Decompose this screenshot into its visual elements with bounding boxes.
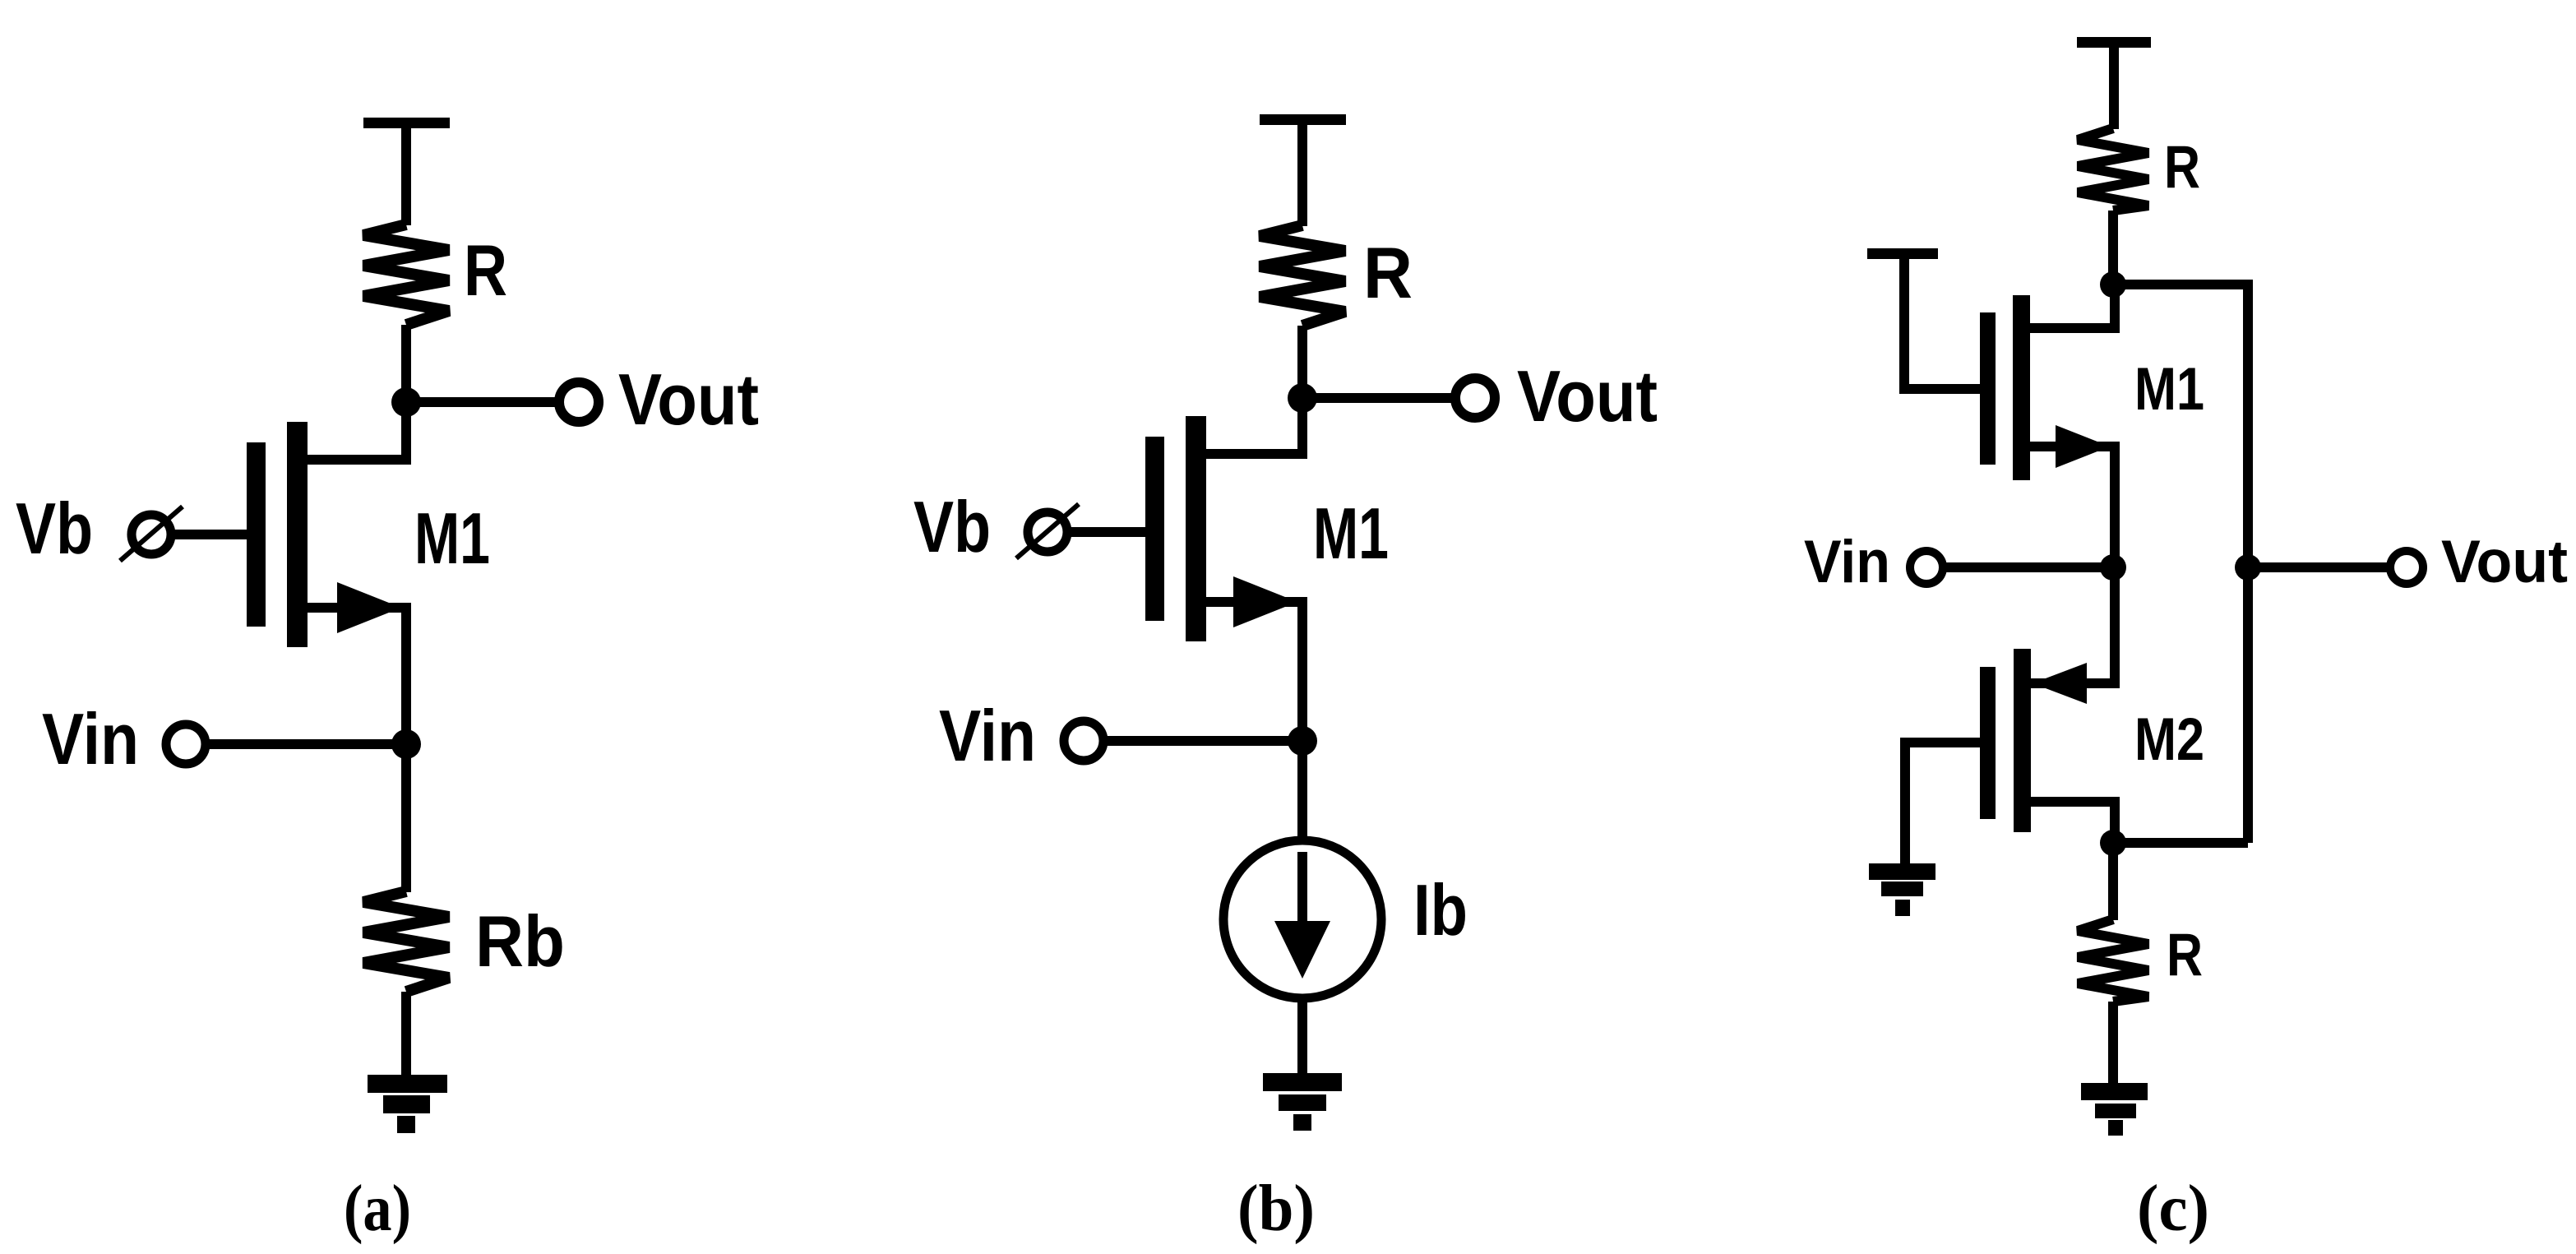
svg-text:Rb: Rb: [475, 900, 565, 982]
terminal Vin (c): [1910, 551, 1943, 584]
svg-text:Vout: Vout: [2441, 529, 2568, 595]
resistor R (a): [363, 224, 449, 325]
svg-text:Vout: Vout: [618, 359, 759, 440]
transistor M1 (b): [1145, 398, 1302, 741]
resistor R bottom (c): [2078, 919, 2148, 1002]
ground at gate of M2 (c): [1869, 863, 1935, 916]
resistor Rb (a): [363, 891, 449, 992]
transistor M1 (a): [247, 402, 406, 744]
wire: gate of M1 to Vb terminal (b): [1071, 527, 1145, 537]
svg-text:M1: M1: [2134, 356, 2204, 423]
svg-text:R: R: [2164, 134, 2200, 201]
wire: resistor R to ground (c): [2108, 1002, 2118, 1087]
wire: current source to ground (b): [1297, 1001, 1307, 1076]
ground (b): [1263, 1073, 1342, 1131]
svg-text:R: R: [2167, 922, 2203, 988]
svg-text:Vb: Vb: [16, 488, 93, 569]
current source Ib (b): [1223, 840, 1381, 998]
wire: Vout junction to Vout terminal (c): [2248, 562, 2387, 572]
gate supply rail of M1 (c): [1867, 248, 1980, 389]
svg-text:Ib: Ib: [1413, 869, 1468, 951]
wire: resistor R to output node (a): [401, 325, 411, 402]
svg-text:M2: M2: [2134, 706, 2204, 773]
node: R/M1-drain junction (c): [2100, 271, 2126, 298]
VDD supply rail (c): [2077, 37, 2151, 129]
terminal Vin (a): [166, 724, 206, 764]
VDD supply rail (a): [363, 118, 450, 225]
svg-text:R: R: [464, 229, 507, 311]
terminal Vb with slash (a): [120, 507, 183, 561]
node: Vin/source/current-source junction (b): [1288, 726, 1317, 756]
svg-text:Vin: Vin: [42, 698, 139, 780]
resistor R (b): [1260, 225, 1345, 326]
wire: resistor Rb to ground (a): [401, 992, 411, 1077]
node: M2-drain/R junction (c): [2100, 830, 2126, 856]
svg-text:Vin: Vin: [1804, 529, 1890, 595]
ground (a): [368, 1075, 447, 1133]
svg-text:Vb: Vb: [913, 486, 991, 567]
svg-text:M1: M1: [1313, 493, 1389, 574]
wire: gate of M2 to ground (c): [1905, 743, 1980, 868]
wire: Vin terminal to source junction (a): [207, 739, 406, 749]
terminal Vout (a): [559, 382, 599, 422]
wire: Vin terminal to source junction (b): [1105, 736, 1302, 746]
terminal Vout (c): [2390, 551, 2423, 584]
resistor R top (c): [2078, 128, 2148, 211]
svg-text:Vin: Vin: [939, 695, 1036, 776]
transistor M2 (c): [1980, 567, 2115, 843]
node: Vin/M1-source/M2-source junction (c): [2100, 554, 2126, 581]
terminal Vin (b): [1064, 721, 1103, 761]
wire: drain node to right rail (c): [2113, 280, 2248, 289]
wire: junction to current source (b): [1297, 741, 1307, 839]
svg-text:R: R: [1363, 232, 1413, 313]
wire: drain node to resistor R bottom (c): [2108, 843, 2118, 920]
node: Vout junction on right rail (c): [2235, 554, 2261, 581]
terminal Vb with slash (b): [1016, 504, 1079, 558]
ground bottom (c): [2081, 1083, 2148, 1136]
node: Vin/source/Rb junction (a): [391, 729, 421, 759]
svg-text:Vout: Vout: [1517, 355, 1658, 437]
wire: Vin terminal to source junction (c): [1943, 562, 2113, 572]
wire: right vertical rail (c): [2243, 280, 2253, 843]
node: drain/R/Vout junction (b): [1288, 383, 1317, 413]
wire: resistor R to drain node (c): [2108, 211, 2118, 285]
node: drain/R/Vout junction (a): [391, 387, 421, 417]
terminal Vout (b): [1455, 378, 1495, 418]
VDD supply rail (b): [1260, 114, 1346, 226]
svg-text:(b): (b): [1237, 1171, 1315, 1245]
svg-text:(a): (a): [344, 1171, 411, 1245]
wire: junction to resistor Rb (a): [401, 744, 411, 892]
svg-text:(c): (c): [2137, 1171, 2209, 1245]
wire: drain node to right rail bottom corner (c): [2113, 838, 2248, 848]
wire: node to Vout terminal (a): [406, 397, 556, 407]
transistor M1 (c): [1980, 285, 2115, 567]
wire: node to Vout terminal (b): [1302, 393, 1452, 403]
wire: resistor R to output node (b): [1297, 326, 1307, 398]
wire: gate of M1 to Vb terminal (a): [174, 530, 247, 539]
svg-text:M1: M1: [414, 497, 490, 579]
